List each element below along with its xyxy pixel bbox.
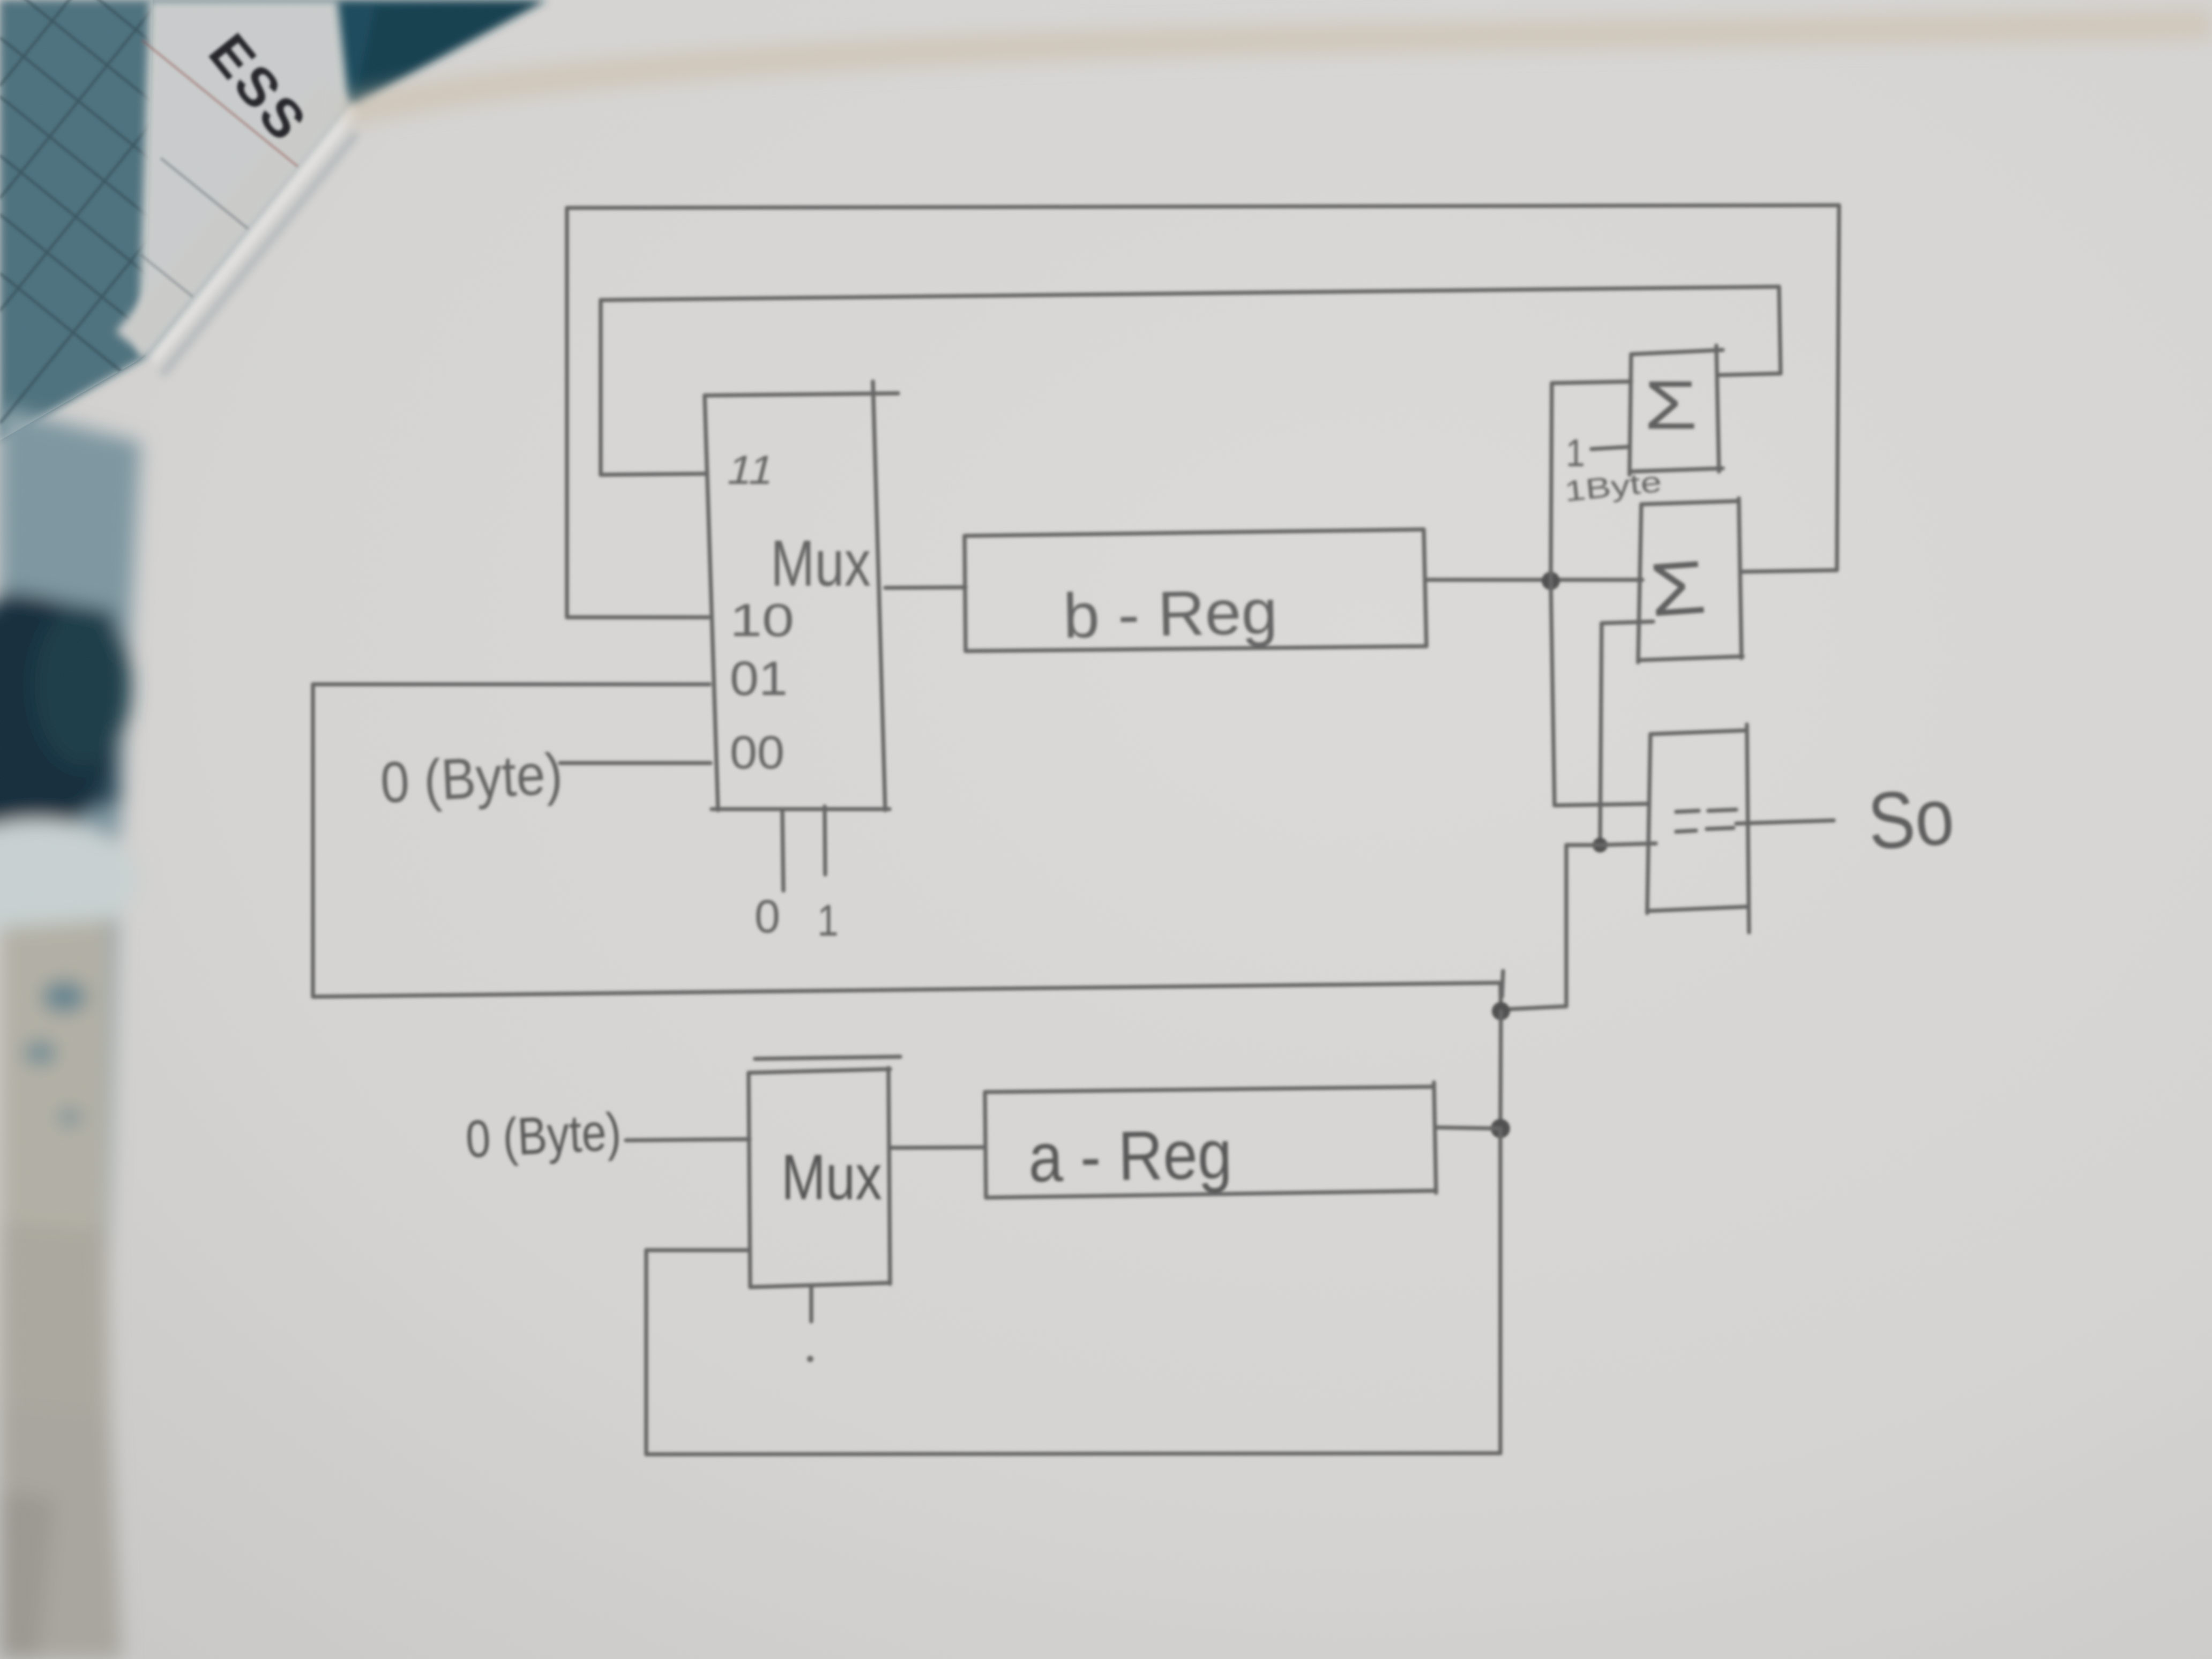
wire: J1 up to adder U2 input <box>1551 382 1631 581</box>
adder U3 (lower sigma) box <box>1638 498 1743 662</box>
wire: big left loop from U1 input 01 down and across <box>313 684 1503 1011</box>
wire: U1 select 0 stub <box>782 810 783 891</box>
node J2 junction dot (comparator input 2) <box>1593 838 1608 853</box>
label Mux (U1) <box>771 527 871 600</box>
wire: a-Reg output to J4 <box>1436 1127 1500 1129</box>
label 1Byte <box>1563 466 1663 508</box>
node: select dot below U5 <box>807 1356 813 1362</box>
wire: J3 down to J4 <box>1500 1011 1501 1129</box>
wire: J1 down to comparator input 1 <box>1551 581 1649 805</box>
mux U1 box <box>705 382 898 810</box>
wire: outer feedback top line <box>567 205 1839 208</box>
wire: U1 select 1 stub <box>825 806 825 875</box>
wire: J2 into comparator input 2 <box>1600 843 1656 845</box>
wire: b-Reg output to node J1 <box>1426 578 1642 582</box>
wire: U5 select stub below <box>809 1286 813 1321</box>
constant label 0 (Byte) lower <box>464 1102 622 1169</box>
wire: 0 (Byte) to U1 input 00 <box>560 761 711 765</box>
node J4 junction dot (a-Reg output) <box>1491 1119 1510 1138</box>
select label 0 <box>754 891 780 943</box>
wire: 0 (Byte) to mux U5 input <box>626 1139 750 1140</box>
select label 1 <box>817 895 839 945</box>
register b-Reg box <box>965 529 1426 651</box>
wire: J4 down, select feedback loop to U5 <box>646 1129 1500 1454</box>
wire: U4 output <box>1736 820 1834 824</box>
label Mux (U5) <box>781 1141 882 1213</box>
pin label 11 <box>723 447 780 493</box>
label b - Reg <box>1063 577 1279 652</box>
node J1 junction dot <box>1542 572 1560 590</box>
comparator U4 box <box>1647 724 1749 932</box>
wire: second input into U3 from vertical <box>1600 622 1653 845</box>
wire: U1 output to b-Reg <box>885 587 966 588</box>
constant label 0 (Byte) upper <box>379 741 564 815</box>
label sigma U3 <box>1647 544 1709 632</box>
mux U5 box <box>749 1057 900 1287</box>
wire: U5 output to a-Reg <box>890 1147 985 1148</box>
wire: J2 left and down to J3 <box>1501 845 1600 1010</box>
label sigma U2 <box>1644 367 1698 444</box>
pin label 01 <box>730 652 788 706</box>
label So <box>1865 771 1957 866</box>
constant label 1 at U2 <box>1566 432 1585 475</box>
wire: outer feedback down to U1 input 10 <box>567 208 708 617</box>
wire: inner feedback down to U1 input 11 <box>601 300 707 475</box>
wire: constant 1 dash into U2 <box>1591 447 1628 449</box>
node J3 junction dot <box>1492 1002 1510 1020</box>
pin label 10 <box>730 595 794 646</box>
pin label 00 <box>730 727 784 779</box>
adder U2 (upper sigma) box <box>1630 346 1723 475</box>
wire: inner feedback top line <box>601 287 1779 300</box>
label a - Reg <box>1028 1115 1232 1197</box>
wire: U2 output up to inner feedback line <box>1719 287 1781 375</box>
label == inside U4 <box>1676 810 1736 832</box>
register a-Reg box <box>985 1082 1436 1198</box>
wire: U3 output right and up to outer feedback <box>1742 205 1839 572</box>
